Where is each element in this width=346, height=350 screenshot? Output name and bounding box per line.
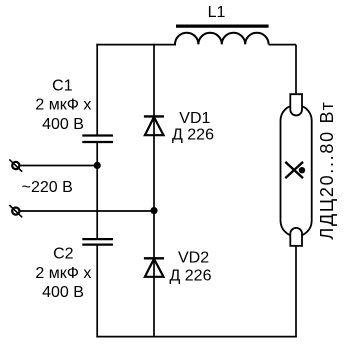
svg-text:2 мкФ х: 2 мкФ х xyxy=(35,265,91,282)
svg-text:2 мкФ х: 2 мкФ х xyxy=(35,97,91,114)
terminal X2 xyxy=(9,205,22,217)
svg-text:~220 В: ~220 В xyxy=(22,179,73,196)
capacitor C1 xyxy=(82,136,113,143)
svg-text:ЛДЦ20...80 Вт: ЛДЦ20...80 Вт xyxy=(317,100,337,239)
wire lamp bottom to bottom wire xyxy=(295,246,297,337)
svg-text:L1: L1 xyxy=(208,4,226,21)
wire left vertical bottom segment xyxy=(96,245,98,337)
wire middle vertical xyxy=(153,44,155,338)
capacitor C2 xyxy=(82,239,113,245)
wire left vertical middle segment xyxy=(96,142,98,239)
svg-text:C1: C1 xyxy=(52,77,73,94)
svg-text:400 В: 400 В xyxy=(42,116,84,133)
lamp gas-discharge X symbol xyxy=(285,162,303,178)
svg-text:VD1: VD1 xyxy=(179,110,210,127)
wire terminal X1 to node xyxy=(20,165,97,167)
svg-text:Д 226: Д 226 xyxy=(170,267,212,284)
svg-text:400 В: 400 В xyxy=(42,284,84,301)
wire terminal X2 to node xyxy=(20,210,154,212)
diode VD1 xyxy=(144,116,164,135)
lamp tube xyxy=(281,105,312,236)
svg-text:Д 226: Д 226 xyxy=(172,127,214,144)
lamp top electrode pin xyxy=(290,94,302,115)
lamp bottom electrode pin xyxy=(290,228,302,246)
terminal X1 xyxy=(9,159,22,171)
svg-text:VD2: VD2 xyxy=(178,250,209,267)
node junction dot C1 xyxy=(94,162,101,169)
svg-text:C2: C2 xyxy=(53,245,74,262)
inductor L1 xyxy=(175,33,269,45)
node junction dot middle xyxy=(150,207,157,214)
wire top horizontal right segment xyxy=(269,44,296,46)
lamp dot xyxy=(299,167,305,173)
diode VD2 xyxy=(144,258,164,277)
wire right vertical to lamp xyxy=(295,45,297,95)
wire left vertical top segment xyxy=(96,44,98,136)
wire top horizontal left segment xyxy=(96,44,176,46)
inductor L1 core bar xyxy=(176,25,269,28)
wire bottom horizontal xyxy=(96,336,297,338)
